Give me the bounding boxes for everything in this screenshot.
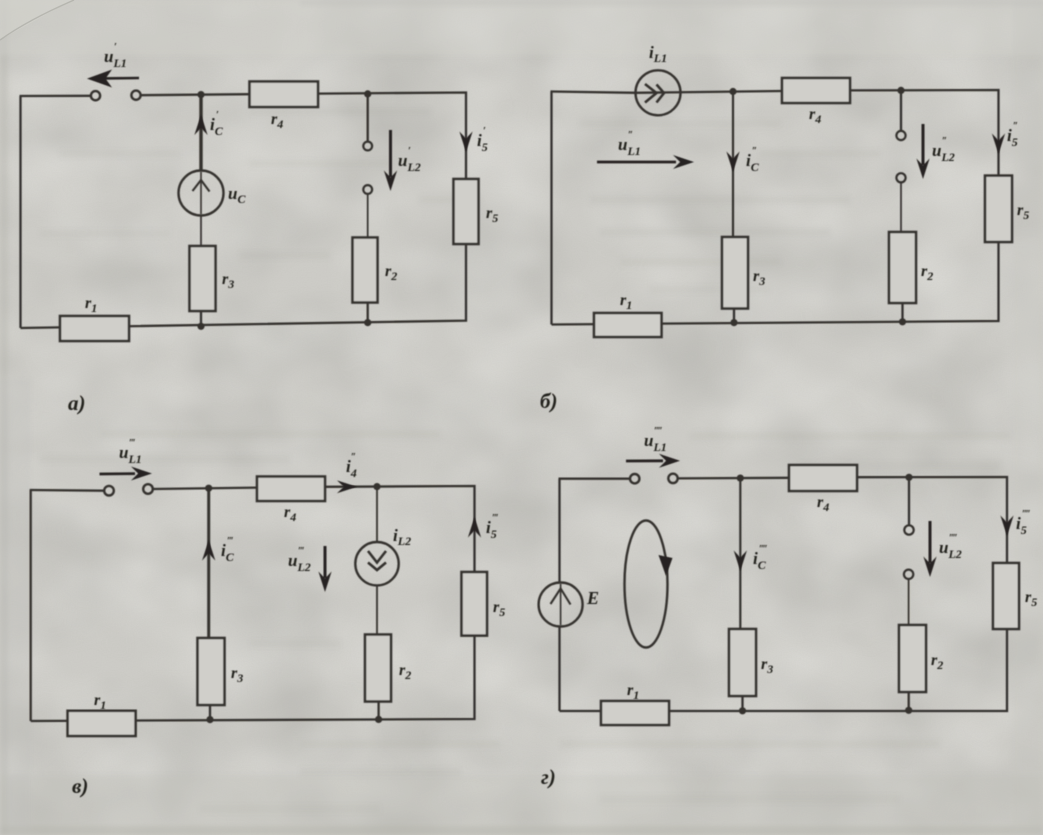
node dot bottom right branch (a) (364, 319, 371, 326)
arrowhead i''''C (g) down (734, 551, 747, 572)
switch terminal circle right (a) (131, 91, 140, 100)
wire: r3 to bottom node (b) (733, 309, 735, 324)
arrow u''L2 (b) downwards (916, 124, 929, 179)
wire: top-left segment to switch terminal (20, 95, 91, 97)
arrow u'''L1 (v) rightwards (100, 467, 153, 481)
wire: r2 to bottom wire (367, 303, 369, 323)
node dot bottom right branch (b) (899, 318, 906, 325)
node dot at iC junction (a) (197, 91, 204, 98)
top-left page corner crease (0, 0, 74, 40)
wire: r5 down to bottom-right corner (21, 244, 467, 328)
node dot bottom centre (v) (206, 716, 213, 723)
switch terminal circle right (g) (668, 474, 677, 483)
wire: r2 to bottom wire (g) (908, 692, 910, 711)
iL2 chevrons inside source pointing down (v) (368, 551, 386, 570)
node dot at uL2 top junction (a) (364, 90, 371, 97)
resistor r3 (v) (198, 638, 225, 705)
arrow uL1 (a) leftwards (87, 70, 139, 88)
svg-text:г): г) (541, 765, 556, 789)
wire: r4 to corner via i4 arrow (v) (325, 486, 475, 572)
node dot bottom right branch (v) (375, 716, 382, 723)
svg-text:′′′′: ′′′′ (654, 426, 662, 437)
arrowhead i5 (a) down on right wire (459, 132, 472, 153)
arrowhead on loop ellipse (g) (659, 555, 673, 576)
node dot at iC junction (b) (729, 88, 736, 95)
svg-text:′′′′: ′′′′ (949, 533, 957, 544)
current source iL2 circle (v) (355, 542, 398, 585)
wire: r4 to top-right corner and down to i5 arrow (318, 93, 466, 180)
svg-text:E: E (586, 588, 599, 608)
wire: uL2 branch upper stub (367, 94, 369, 142)
node dot at iL2 junction (v) (373, 483, 380, 490)
wire: lower terminal to r2 (367, 194, 369, 238)
wire: r3 to bottom node (v) (209, 705, 211, 720)
voltage source E circle (g) (539, 583, 583, 627)
wire through iL1 to r4 (636, 91, 782, 93)
wire: terminal to node, node to r4 (141, 94, 250, 95)
arrowhead i'''C (v) up (202, 540, 215, 561)
resistor r1 (v) (68, 711, 136, 736)
E source arrow inside (g) (560, 584, 562, 625)
svg-text:а): а) (68, 391, 86, 415)
wire: r2 to bottom wire (v) (377, 702, 379, 721)
wire: left vertical side (b) (550, 92, 552, 325)
wire: top-left to iL1 source (551, 92, 637, 93)
wire: lower terminal to r2 (b) (900, 182, 902, 232)
wire: E to bottom-left corner (g) (558, 627, 560, 712)
capacitor branch thick wire iC (v) (207, 488, 210, 638)
resistor r3 (a) (190, 246, 216, 311)
node dot at uL2 junction (b) (897, 87, 904, 94)
resistor r1 (a) (60, 316, 129, 341)
resistor r4 (b) (782, 78, 850, 103)
node dot bottom centre (a) (197, 323, 204, 330)
resistor r1 (g) (601, 701, 669, 725)
wire: r4 to top-right corner down (g) (857, 477, 1007, 563)
wire: top-left to switch terminal (g) (559, 478, 631, 480)
svg-text:б): б) (540, 389, 557, 413)
wire: left vertical top segment (g) (558, 479, 560, 583)
arrowhead i''4 (v) right on top wire (337, 480, 357, 493)
wire: left vertical side of loop a (19, 96, 21, 328)
capacitor branch wire iC (b) (732, 92, 734, 238)
svg-text:′′′′: ′′′′ (759, 544, 767, 555)
resistor r2 (v) (365, 635, 391, 702)
wire: r3 to bottom node (200, 311, 202, 327)
resistor r5 (a) (454, 179, 479, 244)
resistor r1 (b) (594, 313, 662, 337)
resistor r4 (v) (257, 477, 325, 502)
switch terminal circle lower (g) (904, 570, 913, 579)
resistor r2 (a) (353, 238, 378, 303)
wire: uL2 branch upper stub (b) (900, 90, 902, 131)
loop direction ellipse (g) (625, 521, 668, 648)
resistor r3 (g) (729, 629, 756, 696)
switch terminal circle left (a) (91, 91, 100, 100)
capacitor branch wire iC (g) (739, 478, 741, 629)
wire: junction down to iL2 source (v) (376, 487, 378, 542)
wire: r5 to bottom-right corner (g) (560, 629, 1008, 711)
switch terminal circle upper of uL2 branch (a) (363, 142, 372, 151)
arrowhead i''''5 (g) down (1000, 516, 1013, 537)
wire: r2 to bottom wire (b) (901, 303, 903, 322)
switch terminal circle lower (b) (896, 173, 905, 182)
wire: r3 to bottom node (g) (741, 696, 743, 711)
capacitor-branch thick wire iC (a) (199, 95, 202, 171)
switch terminal circle left (g) (630, 474, 639, 483)
wire: top-left to switch terminal (v) (30, 489, 105, 492)
wire: terminal to node to r4 (v) (153, 488, 257, 489)
arrowhead i'''5 (v) up (468, 517, 481, 538)
resistor r2 (b) (889, 232, 916, 303)
resistor r4 (g) (789, 465, 857, 491)
resistor r5 (v) (462, 572, 488, 636)
wire: terminal to node to r4 (g) (678, 477, 789, 480)
current source iL1 circle (b) (636, 70, 681, 115)
switch terminal circle right (v) (143, 484, 153, 494)
iL1 chevrons inside source (b) (645, 84, 664, 103)
resistor r5 (g) (993, 563, 1019, 629)
node dot bottom right branch (g) (905, 707, 912, 714)
node dot at uL2 junction (g) (905, 474, 912, 481)
switch terminal circle left (v) (104, 486, 114, 496)
uC source arrow inside (a) (200, 172, 202, 214)
arrow u''''L2 (g) downwards (923, 521, 936, 577)
switch terminal circle lower of uL2 branch (a) (363, 185, 372, 194)
node dot bottom centre (b) (730, 319, 737, 326)
arrowhead i''5 (b) down (992, 134, 1005, 155)
wire: r5 to bottom-right corner (v) (31, 636, 475, 721)
node dot at iC junction (g) (737, 475, 744, 482)
arrow uL2 (a) downwards (384, 130, 397, 191)
arrow u''L1 (b) rightwards (597, 155, 694, 169)
wire: iL2 to r2 (v) (376, 585, 378, 634)
arrow u'''L2 (v) downwards (318, 546, 331, 592)
resistor r4 (a) (250, 82, 319, 108)
switch terminal circle upper (b) (896, 131, 905, 140)
arrowhead of iC current arrow (a) up (194, 115, 207, 136)
svg-text:в): в) (72, 774, 88, 798)
wire: uC to r3 (200, 216, 202, 247)
resistor r3 (b) (722, 237, 748, 309)
faint bleed-through smudges (40, 108, 1010, 813)
resistor r2 (g) (899, 625, 926, 692)
voltage source uC circle (a) (179, 171, 224, 216)
node dot bottom centre (g) (739, 707, 746, 714)
svg-text:′′′′: ′′′′ (1022, 509, 1030, 520)
wire: r5 to bottom-right corner (552, 242, 999, 325)
wire: r4 to top-right corner, down (850, 90, 999, 176)
switch terminal circle upper (g) (904, 525, 913, 534)
wire: left vertical side (v) (30, 490, 32, 721)
arrowhead i''C (b) down (726, 152, 739, 173)
resistor r5 (b) (985, 176, 1012, 242)
arrow u''''L1 (g) rightwards (626, 454, 680, 468)
wire: uL2 branch upper stub (g) (908, 477, 910, 525)
wire: lower terminal to r2 (g) (908, 579, 910, 625)
node dot at iC junction (v) (205, 485, 212, 492)
